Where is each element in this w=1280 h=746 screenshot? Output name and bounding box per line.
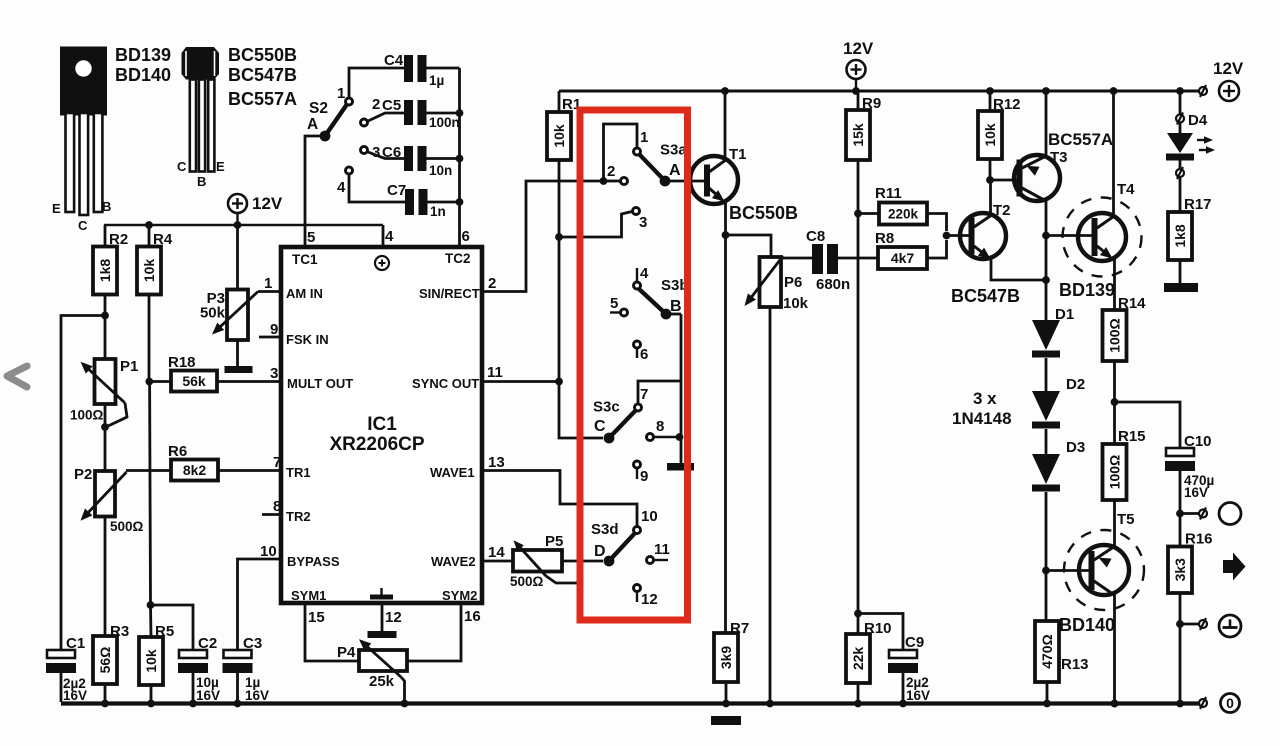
wire ground column xyxy=(680,314,683,463)
wire R11 right xyxy=(927,214,947,232)
wire P3 bottom xyxy=(236,340,239,366)
svg-text:R16: R16 xyxy=(1185,531,1213,548)
wire contact1 loop xyxy=(604,124,638,181)
svg-text:TC2: TC2 xyxy=(445,251,471,266)
label BC550B xyxy=(228,45,297,65)
svg-text:7: 7 xyxy=(273,454,281,471)
label 3x 1N4148 xyxy=(952,389,1012,428)
LED D4 xyxy=(1166,133,1215,161)
svg-text:3: 3 xyxy=(639,214,647,231)
svg-text:FSK IN: FSK IN xyxy=(286,332,329,347)
resistor R3 xyxy=(93,623,129,684)
capacitor C9 xyxy=(888,634,930,703)
svg-text:C4: C4 xyxy=(384,52,404,69)
capacitor C3 xyxy=(223,635,270,703)
svg-text:R18: R18 xyxy=(168,354,196,371)
svg-text:R8: R8 xyxy=(875,230,894,247)
svg-text:BD139: BD139 xyxy=(1059,280,1115,300)
wire S2-1 to C4 xyxy=(349,68,404,97)
wire 12V rail top xyxy=(559,90,1198,93)
wire R12 bottom xyxy=(989,159,992,180)
pin 16 label xyxy=(464,608,481,625)
resistor R2 xyxy=(93,231,128,295)
svg-text:A: A xyxy=(307,116,318,133)
potentiometer P2 xyxy=(74,466,144,534)
resistor R8 xyxy=(875,230,927,269)
junction R5 rail xyxy=(147,700,155,708)
wire ground rail xyxy=(61,701,1199,705)
svg-text:12: 12 xyxy=(385,609,402,626)
wire D2-D3 xyxy=(1045,429,1048,454)
wire pin11 xyxy=(482,380,559,383)
svg-text:E: E xyxy=(52,201,61,216)
package drawing TO-92 BC550/547/557 xyxy=(177,47,225,189)
ground R17 xyxy=(1164,283,1198,292)
resistor R13 xyxy=(1035,621,1089,682)
ground P3 xyxy=(225,366,253,373)
junction C2 tap xyxy=(147,601,155,609)
wire rail to conn xyxy=(1180,90,1199,93)
terminal output circle xyxy=(1219,503,1241,525)
switch S3b contact 5 xyxy=(610,295,628,316)
label BC547B xyxy=(951,286,1020,306)
ground pin12 xyxy=(368,631,397,638)
svg-text:5: 5 xyxy=(610,295,618,312)
svg-text:R6: R6 xyxy=(168,443,187,460)
junction C7 bus xyxy=(456,198,464,206)
junction T1 rail xyxy=(721,87,729,95)
UI chevron xyxy=(7,366,27,387)
wire T1 collector xyxy=(724,91,727,160)
junction gnd jack xyxy=(1176,620,1184,628)
wire P3 top xyxy=(236,225,239,290)
resistor R17 xyxy=(1168,196,1212,260)
switch S2 label xyxy=(307,100,328,133)
wire T3 base xyxy=(990,179,1017,182)
svg-text:S3a: S3a xyxy=(660,142,687,159)
svg-text:4: 4 xyxy=(640,265,649,282)
wire to gnd jack xyxy=(1180,623,1199,626)
capacitor C5 xyxy=(382,97,460,130)
switch S3b contact 6 xyxy=(634,341,649,363)
svg-text:E: E xyxy=(216,159,225,174)
svg-text:7: 7 xyxy=(640,386,648,403)
wire R17 bottom xyxy=(1179,260,1182,283)
wire P3 wiper to pin1 xyxy=(258,290,281,293)
junction contact3 tap xyxy=(555,233,563,241)
svg-text:10k: 10k xyxy=(143,649,159,673)
potentiometer P3 xyxy=(200,290,258,341)
wire T2 base xyxy=(947,234,970,237)
pin 2 label xyxy=(488,275,496,292)
svg-text:P4: P4 xyxy=(337,644,356,661)
capacitor C8 xyxy=(806,228,850,293)
pin 5 label xyxy=(307,229,315,246)
junction T5 base node xyxy=(1042,567,1050,575)
wire conn to R17 xyxy=(1179,177,1182,212)
wire output to C10 xyxy=(1115,402,1181,448)
wire R18 left xyxy=(149,380,171,383)
wire R8 right xyxy=(927,240,947,258)
wire pin10 to C3 xyxy=(238,559,282,650)
svg-text:3 x: 3 x xyxy=(973,389,997,408)
switch S3c contact 9 xyxy=(634,461,649,485)
svg-text:R13: R13 xyxy=(1061,656,1089,673)
wire R1 bottom column xyxy=(558,160,561,382)
transistor Q4 T4 xyxy=(1063,181,1142,277)
junction P4 rail xyxy=(401,700,409,708)
pin 3 label xyxy=(270,365,278,382)
svg-text:D: D xyxy=(594,543,606,560)
wire T4 base xyxy=(1046,234,1092,237)
junction C5 bus xyxy=(456,109,464,117)
svg-text:2: 2 xyxy=(372,96,380,113)
pin 15 label xyxy=(308,609,325,626)
wire R9 top xyxy=(857,91,860,110)
switch S2 contact 2 xyxy=(361,96,381,126)
svg-text:R7: R7 xyxy=(730,620,749,637)
pin 11 label xyxy=(487,364,503,381)
wire B to ground column xyxy=(666,313,681,316)
junction R18 tap xyxy=(145,378,153,386)
switch S3c contact 7 xyxy=(635,386,649,411)
junction R12 rail xyxy=(986,87,994,95)
wire T5 collector xyxy=(1113,594,1116,702)
svg-text:56k: 56k xyxy=(182,373,206,389)
svg-text:14: 14 xyxy=(488,544,505,561)
junction output node xyxy=(1111,398,1119,406)
wire A to T1 base xyxy=(665,180,704,183)
switch S3d contact 10 xyxy=(634,508,658,534)
wire C9 branch xyxy=(858,614,903,651)
svg-text:TC1: TC1 xyxy=(292,252,318,267)
supply +12V left xyxy=(228,194,283,226)
wire C6 right xyxy=(427,157,460,160)
output arrow symbol xyxy=(1223,553,1246,581)
label S3c xyxy=(593,399,620,416)
wire T3 collector xyxy=(1045,200,1048,321)
junction rail R14col xyxy=(1111,700,1119,708)
svg-text:T1: T1 xyxy=(729,146,747,163)
svg-text:C5: C5 xyxy=(382,97,401,114)
wire contact7 loop xyxy=(638,381,681,403)
wire C10 bottom xyxy=(1179,471,1182,514)
switch S3a common A xyxy=(639,154,681,186)
wire T2 emitter xyxy=(991,259,1046,280)
switch S2 contact 4 xyxy=(337,167,353,196)
svg-text:C8: C8 xyxy=(806,228,825,245)
svg-text:T3: T3 xyxy=(1050,149,1068,166)
wire R16 top xyxy=(1179,514,1182,547)
package drawing TO-126 BD139/BD140 xyxy=(52,47,111,234)
svg-text:SYNC OUT: SYNC OUT xyxy=(412,376,479,391)
junction pin11 node xyxy=(555,378,563,386)
svg-text:SYM1: SYM1 xyxy=(291,588,326,603)
junction supply mid xyxy=(852,87,860,95)
switch S3a contact 1 xyxy=(634,129,649,155)
wire S2-2 to C5 xyxy=(368,113,404,121)
wire R11 left xyxy=(858,212,879,215)
svg-text:16V: 16V xyxy=(1184,485,1208,500)
wire C2 branch xyxy=(151,605,194,650)
resistor R4 xyxy=(137,231,173,295)
svg-text:S2: S2 xyxy=(309,100,328,117)
svg-text:BC557A: BC557A xyxy=(228,89,297,109)
resistor R15 xyxy=(1103,428,1146,500)
svg-text:8: 8 xyxy=(273,498,281,515)
wire P6 wiper to C8 xyxy=(783,257,812,260)
svg-text:3: 3 xyxy=(270,365,278,382)
svg-text:2: 2 xyxy=(488,275,496,292)
svg-text:B: B xyxy=(670,298,682,315)
wire T2 collector xyxy=(989,180,992,215)
junction R7 rail xyxy=(722,700,730,708)
junction P1 wiper xyxy=(101,423,109,431)
junction contact8 xyxy=(676,433,684,441)
switch S3b contact 4 xyxy=(634,265,650,289)
svg-text:C: C xyxy=(78,218,88,233)
wire C5 right xyxy=(427,112,460,115)
wire T3 emitter xyxy=(1045,91,1048,156)
junction R10 rail xyxy=(854,700,862,708)
supply +12V middle xyxy=(843,39,874,91)
potentiometer P4 xyxy=(337,639,407,702)
resistor R7 xyxy=(714,620,749,682)
pin 8 stub xyxy=(262,513,281,516)
label BC557A xyxy=(228,89,297,109)
wire R10 bottom xyxy=(857,683,860,702)
svg-text:6: 6 xyxy=(462,228,470,245)
junction D4 rail xyxy=(1176,87,1184,95)
svg-text:WAVE1: WAVE1 xyxy=(430,465,475,480)
resistor R16 xyxy=(1168,531,1213,594)
junction node R2/P1/C1 xyxy=(101,312,109,320)
svg-text:8k2: 8k2 xyxy=(183,462,207,478)
svg-text:9: 9 xyxy=(270,321,278,338)
wire C4 right xyxy=(427,67,460,70)
junction output jack xyxy=(1176,510,1184,518)
diode D2 xyxy=(1032,376,1085,429)
resistor R9 xyxy=(846,95,881,160)
svg-text:4: 4 xyxy=(385,228,394,245)
svg-text:10: 10 xyxy=(641,508,658,525)
wire P1 to P2 xyxy=(104,404,107,471)
wire T4 emitter xyxy=(1113,258,1116,310)
label BD139 T4 xyxy=(1059,280,1115,300)
svg-text:SYM2: SYM2 xyxy=(442,588,477,603)
svg-text:C3: C3 xyxy=(243,635,262,652)
svg-text:P5: P5 xyxy=(545,533,563,550)
svg-text:C6: C6 xyxy=(382,144,401,161)
svg-text:P1: P1 xyxy=(120,358,138,375)
svg-text:WAVE2: WAVE2 xyxy=(431,554,476,569)
junction R3 rail xyxy=(101,700,109,708)
switch S3d contact 11 xyxy=(647,541,670,564)
switch S3d contact 12 xyxy=(634,585,658,609)
svg-text:1k8: 1k8 xyxy=(97,259,113,283)
connector D4 bottom xyxy=(1176,167,1184,179)
junction C2 rail xyxy=(189,700,197,708)
junction T1 emitter node xyxy=(722,231,730,239)
junction R4 top xyxy=(145,221,153,229)
svg-text:B: B xyxy=(197,174,206,189)
wire T4 collector xyxy=(1112,91,1115,216)
svg-text:11: 11 xyxy=(654,541,670,558)
label BD140 xyxy=(115,65,171,85)
connector D4 top xyxy=(1176,112,1208,129)
svg-text:1: 1 xyxy=(640,129,648,146)
junction T3 base node xyxy=(986,176,994,184)
svg-text:15: 15 xyxy=(308,609,325,626)
svg-text:10n: 10n xyxy=(429,163,452,178)
svg-text:P2: P2 xyxy=(74,466,92,483)
wire D to P5 xyxy=(562,560,603,563)
svg-text:10k: 10k xyxy=(141,259,157,283)
wire to contact 3 xyxy=(559,212,632,238)
svg-text:680n: 680n xyxy=(816,276,850,293)
svg-text:1µ: 1µ xyxy=(429,73,444,88)
junction R11 tap xyxy=(854,210,862,218)
connector jack gnd xyxy=(1199,618,1207,630)
svg-text:10k: 10k xyxy=(783,295,809,312)
pin 1 label xyxy=(264,275,272,292)
svg-text:10k: 10k xyxy=(982,123,998,147)
svg-text:D2: D2 xyxy=(1066,376,1085,393)
wire pin16 xyxy=(407,603,461,661)
wire R2node to P1 xyxy=(104,316,107,360)
svg-text:3k9: 3k9 xyxy=(718,646,734,670)
resistor R5 xyxy=(139,623,174,685)
wire pin13 to S3d xyxy=(482,471,637,527)
svg-text:100n: 100n xyxy=(429,115,460,130)
terminal 0V circle xyxy=(1221,694,1240,713)
label BC547B xyxy=(228,65,297,85)
wire to C1 branch xyxy=(61,316,105,651)
svg-text:0: 0 xyxy=(1226,695,1234,711)
connector 0V xyxy=(1199,697,1207,709)
op-amp U1 IC1 XR2206CP xyxy=(281,247,482,603)
wire R14 bottom xyxy=(1113,361,1116,444)
wire R15 bottom xyxy=(1113,500,1116,546)
wire S2-4 to C7 xyxy=(349,175,405,202)
svg-text:R2: R2 xyxy=(109,231,128,248)
svg-text:1k8: 1k8 xyxy=(1172,224,1188,248)
svg-text:1n: 1n xyxy=(430,204,446,219)
switch S2 contact 1 xyxy=(337,85,353,105)
junction T4 rail xyxy=(1110,87,1118,95)
pin 14 label xyxy=(488,544,505,561)
connector 12V xyxy=(1199,85,1207,97)
wire LED to conn xyxy=(1179,161,1182,170)
svg-text:BYPASS: BYPASS xyxy=(287,554,340,569)
svg-text:BC547B: BC547B xyxy=(228,65,297,85)
svg-text:R3: R3 xyxy=(110,623,129,640)
potentiometer P1 xyxy=(70,358,138,427)
highlight box S3 xyxy=(580,110,688,620)
svg-text:R17: R17 xyxy=(1184,196,1212,213)
wire D1-D2 xyxy=(1045,358,1048,391)
svg-text:470Ω: 470Ω xyxy=(1039,634,1055,669)
svg-text:D4: D4 xyxy=(1188,112,1208,129)
svg-text:AM IN: AM IN xyxy=(286,286,323,301)
resistor R18 xyxy=(168,354,217,392)
transistor Q1 T1 xyxy=(690,146,747,204)
wire pin14 to P5 xyxy=(482,560,513,563)
wire C3 bottom xyxy=(236,673,239,702)
label S3a xyxy=(660,142,687,159)
svg-text:C9: C9 xyxy=(905,634,924,651)
junction R13 rail xyxy=(1043,700,1051,708)
wire R6 left to P2 wiper xyxy=(126,469,171,472)
svg-text:500Ω: 500Ω xyxy=(110,519,144,534)
svg-text:4k7: 4k7 xyxy=(891,250,915,266)
wire R7 bottom xyxy=(725,682,728,702)
resistor R12 xyxy=(978,96,1021,159)
svg-text:IC1: IC1 xyxy=(367,414,397,435)
wire R9 bottom xyxy=(857,160,860,635)
svg-text:C1: C1 xyxy=(66,635,85,652)
junction P6 rail xyxy=(766,700,774,708)
wire R5 bottom xyxy=(150,685,153,702)
svg-text:100Ω: 100Ω xyxy=(70,408,104,423)
wire cap bus xyxy=(458,68,461,202)
capacitor C10 xyxy=(1165,433,1214,500)
switch S3c contact 8 xyxy=(647,418,682,441)
supply +12V right xyxy=(1213,59,1244,101)
potentiometer P6 xyxy=(745,256,809,312)
svg-text:SIN/RECT: SIN/RECT xyxy=(419,286,480,301)
svg-text:D3: D3 xyxy=(1066,439,1085,456)
wire P2 bottom to R3 xyxy=(104,517,107,637)
svg-text:220k: 220k xyxy=(888,207,919,222)
pin 9 stub xyxy=(259,336,281,339)
svg-text:S3c: S3c xyxy=(593,399,620,416)
resistor R10 xyxy=(846,620,892,683)
wire T5 base xyxy=(1046,569,1089,572)
junction S3a node xyxy=(600,177,608,185)
ground main xyxy=(711,716,741,725)
svg-text:A: A xyxy=(669,162,681,179)
svg-text:T5: T5 xyxy=(1117,511,1135,528)
label S3b xyxy=(661,277,689,294)
svg-text:25k: 25k xyxy=(369,673,395,690)
svg-text:1: 1 xyxy=(264,275,272,292)
wire pin15 xyxy=(305,603,359,661)
switch S2 contact 3 xyxy=(361,144,381,161)
svg-text:16V: 16V xyxy=(245,688,269,703)
capacitor C2 xyxy=(178,635,220,703)
wire C8 to R8 xyxy=(838,257,878,260)
svg-text:13: 13 xyxy=(488,454,505,471)
svg-text:6: 6 xyxy=(640,346,648,363)
wire R18 right to pin3 xyxy=(217,380,281,383)
capacitor C6 xyxy=(382,144,452,178)
svg-text:12V: 12V xyxy=(843,39,874,58)
transistor Q3 T3 xyxy=(1014,149,1068,201)
diode D3 xyxy=(1032,439,1085,492)
wire R16 bottom xyxy=(1179,593,1182,704)
svg-text:BD140: BD140 xyxy=(115,65,171,85)
junction T5 rail xyxy=(1111,700,1119,708)
capacitor C4 xyxy=(384,52,444,88)
junction C9 tap xyxy=(854,610,862,618)
svg-text:16: 16 xyxy=(464,608,481,625)
svg-text:BC547B: BC547B xyxy=(951,286,1020,306)
resistor R11 xyxy=(875,185,927,225)
wire S2-3 to C6 xyxy=(368,152,404,159)
svg-text:C2: C2 xyxy=(198,635,217,652)
svg-text:C: C xyxy=(594,418,606,435)
